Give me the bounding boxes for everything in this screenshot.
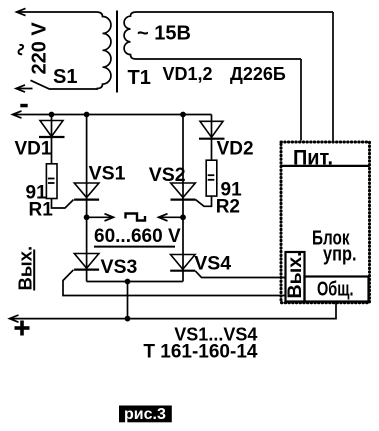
- label Вых. left (rotated, underlined): [15, 246, 36, 291]
- svg-text:~ 15В: ~ 15В: [137, 23, 191, 45]
- svg-text:Общ.: Общ.: [317, 279, 354, 301]
- svg-text:Вых.: Вых.: [284, 252, 306, 299]
- divider line under Пит: [281, 165, 370, 167]
- label 60...660 V underlined: [94, 226, 181, 247]
- svg-text:S1: S1: [53, 66, 77, 88]
- resistor R2: [206, 160, 217, 196]
- node dot plus rail: [125, 316, 131, 322]
- terminal box Общ.: [305, 277, 369, 302]
- svg-text:рис.3: рис.3: [124, 406, 166, 423]
- plus polarity symbol: [15, 321, 30, 336]
- svg-text:VS2: VS2: [149, 164, 186, 186]
- svg-text:Вых.: Вых.: [15, 246, 36, 291]
- diode VD2: [199, 121, 225, 160]
- wire secondary top to block pin: [332, 12, 334, 141]
- svg-text:Т 161-160-14: Т 161-160-14: [143, 342, 258, 363]
- svg-text:R1: R1: [29, 200, 54, 221]
- AC tilde symbol: [18, 45, 23, 54]
- svg-text:VS1: VS1: [89, 163, 126, 185]
- load pulse glyph: [126, 214, 146, 221]
- thyristor VS2: [171, 115, 196, 218]
- wire VS3-VS4 cathode link: [87, 281, 183, 283]
- svg-text:Д226Б: Д226Б: [230, 64, 286, 84]
- figure caption рис.3: [119, 406, 172, 424]
- minus polarity dash: [20, 104, 27, 108]
- svg-text:VD1,2: VD1,2: [163, 64, 213, 84]
- svg-text:VS4: VS4: [194, 253, 231, 275]
- control unit dotted border: [281, 142, 370, 303]
- transformer core: [116, 11, 118, 93]
- arrow AC left-pointing: [159, 214, 184, 221]
- wire cathode link down to plus rail: [127, 282, 129, 319]
- thyristor VS3: [74, 217, 99, 281]
- terminal box Вых.: [284, 252, 306, 302]
- wire VS4 gate to block: [195, 271, 285, 278]
- node dot AC right: [180, 214, 186, 220]
- resistor R1: [46, 164, 57, 199]
- wire VS3 gate to block: [63, 270, 286, 296]
- node dot VS1 top: [84, 112, 90, 118]
- svg-text:220 V: 220 V: [29, 22, 51, 75]
- transformer T1 secondary winding: [124, 12, 333, 59]
- wire R2 to VS2 gate: [196, 196, 212, 206]
- arrow AC right-pointing: [87, 214, 114, 221]
- wire VD2 branch from rail: [211, 115, 213, 139]
- label Блок упр.: [312, 228, 357, 266]
- node dot cathode link: [125, 279, 131, 285]
- svg-text:R2: R2: [216, 197, 240, 218]
- node dot VS2 top: [180, 112, 186, 118]
- node dot VD1 top: [49, 112, 55, 118]
- svg-text:упр.: упр.: [323, 244, 357, 266]
- switch S1 wire with arrow: [16, 80, 98, 92]
- transformer T1 primary winding: [97, 12, 111, 89]
- svg-text:60...660 V: 60...660 V: [94, 226, 181, 247]
- minus rail wire with arrow: [13, 111, 212, 118]
- svg-text:VD2: VD2: [217, 138, 254, 159]
- svg-text:Т1: Т1: [128, 67, 151, 89]
- wire R1 to VS1 gate: [52, 199, 74, 209]
- plus rail wire with arrow: [10, 303, 337, 323]
- svg-text:VD1: VD1: [15, 139, 52, 160]
- thyristor VS1: [74, 115, 99, 218]
- wire 220V top with arrow: [17, 8, 97, 15]
- svg-text:Пит.: Пит.: [293, 147, 333, 170]
- diode VD1: [39, 115, 65, 164]
- node dot AC left: [84, 214, 90, 220]
- wire secondary bottom to block pin: [300, 59, 302, 141]
- thyristor VS4: [170, 217, 195, 281]
- svg-text:VS3: VS3: [101, 256, 138, 278]
